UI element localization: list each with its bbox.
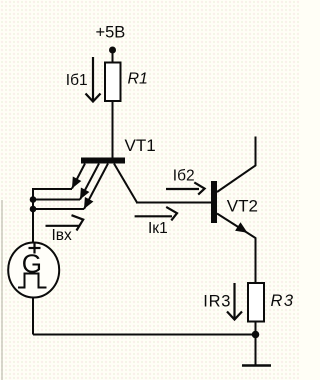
node: ground junction dot (252, 331, 260, 339)
VT1 collector diagonal (114, 164, 137, 203)
current arrow IR3 (227, 283, 242, 320)
current arrow Iб1 (86, 57, 101, 102)
wire: junction down to ground symbol (255, 335, 257, 366)
wire: R3 bottom to ground junction (255, 322, 257, 335)
wire: emitter rail down to generator (32, 188, 34, 243)
ground rail (bottom horizontal wire) (33, 334, 256, 336)
current arrow Iвх (46, 215, 84, 230)
wire: VT1 collector to VT2 base (136, 202, 211, 204)
transistor VT1 base bar (81, 158, 125, 164)
VT1 emitter 1 (diagonal + arrowhead + horizontal to rail) (33, 164, 85, 190)
ground symbol (242, 364, 271, 367)
VT2 collector (diagonal + vertical up) (217, 137, 256, 193)
generator polarity plus (29, 243, 41, 254)
resistor R3 (248, 283, 264, 322)
svg-text:Iб2: Iб2 (173, 168, 195, 185)
wire: +5V dot to R1 top (112, 50, 114, 63)
resistor R1 (105, 63, 121, 102)
node: +5V terminal dot (109, 47, 116, 54)
pulse generator G (8, 243, 59, 298)
current arrow Iб2 (166, 182, 205, 194)
svg-text:Iб1: Iб1 (66, 72, 88, 89)
svg-text:R3: R3 (271, 292, 295, 310)
svg-text:VT2: VT2 (227, 197, 258, 216)
wire: generator bottom to ground rail (32, 298, 34, 335)
svg-text:+5В: +5В (96, 24, 126, 42)
VT1 emitter 3 (33, 164, 108, 210)
svg-text:IR3: IR3 (203, 292, 231, 310)
node: emitter junction dot 2 (30, 206, 37, 213)
svg-text:VT1: VT1 (125, 136, 156, 155)
node: emitter junction dot 1 (30, 196, 37, 203)
current arrow Iк1 (135, 207, 177, 221)
transistor VT2 base bar (211, 181, 217, 223)
generator pulse waveform (18, 274, 47, 288)
VT2 emitter (diagonal + filled arrowhead + vertical down) (217, 214, 256, 284)
svg-text:R1: R1 (128, 71, 148, 88)
wire: R1 bottom to VT1 base bar (112, 101, 114, 158)
scan artifact: faint left edge line (1, 200, 3, 380)
svg-text:Iвх: Iвх (52, 227, 73, 244)
svg-text:Iк1: Iк1 (148, 220, 168, 237)
VT1 emitter 2 (33, 164, 99, 200)
